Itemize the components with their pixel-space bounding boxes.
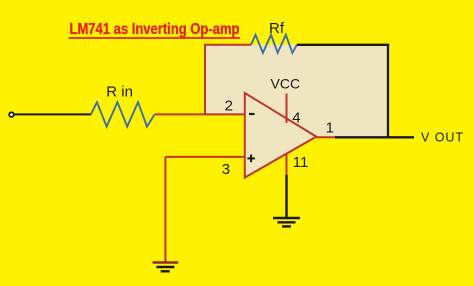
wire: pin 11 black segment to ground: [285, 175, 287, 217]
op-amp body shading (cream region inside feedback loop): [205, 45, 388, 178]
input terminal: [9, 112, 14, 117]
ground (pin 11): [273, 217, 300, 219]
svg-text:2: 2: [225, 98, 233, 115]
wire: pin 3 down to ground (red): [164, 157, 166, 262]
wire: pin 11 red segment: [286, 154, 288, 177]
svg-text:V OUT: V OUT: [421, 130, 463, 144]
resistor R in (blue zigzag): [91, 102, 155, 126]
wire: output pin 1 (red): [316, 136, 335, 138]
wire: feedback top right (black): [297, 44, 389, 46]
svg-text:R in: R in: [106, 84, 133, 101]
wire: pin 3 horizontal (red): [165, 156, 244, 158]
svg-text:3: 3: [222, 161, 230, 178]
wire: output to V OUT (black): [335, 136, 414, 138]
wire: input terminal to R in (black): [14, 113, 91, 115]
wire: feedback left vertical (red): [204, 44, 206, 115]
resistor Rf (blue zigzag): [251, 35, 297, 53]
wire: feedback right vertical (black): [387, 44, 389, 138]
wire: feedback top left (red): [204, 44, 251, 46]
svg-text:LM741 as Inverting Op-amp: LM741 as Inverting Op-amp: [70, 21, 240, 38]
svg-text:VCC: VCC: [271, 76, 301, 92]
svg-text:11: 11: [293, 154, 309, 171]
minus sign at inverting input: [249, 113, 255, 115]
wire: R in to pin 2 (red): [155, 113, 245, 115]
svg-text:4: 4: [292, 109, 300, 126]
ground (input side): [153, 261, 179, 263]
plus sign at non-inverting input: [247, 157, 255, 159]
svg-text:1: 1: [326, 119, 334, 136]
op-amp U1 triangle: [245, 93, 316, 178]
svg-text:Rf: Rf: [269, 20, 285, 37]
wire: VCC to pin 4 (red): [286, 94, 288, 124]
